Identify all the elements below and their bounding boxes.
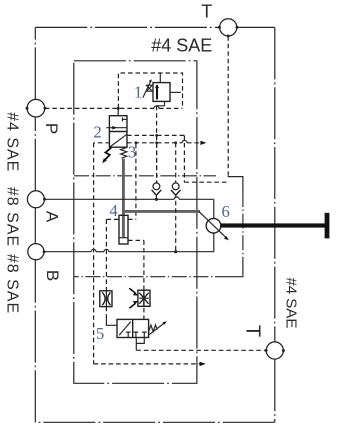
wire tank gallery vertical <box>242 192 244 261</box>
wire A-B link through needle 6 <box>213 199 215 251</box>
svg-text:4: 4 <box>110 201 118 220</box>
orifice square body <box>100 291 112 307</box>
svg-text:P: P <box>42 123 61 134</box>
svg-text:B: B <box>43 270 62 281</box>
relief valve U1 <box>143 73 183 106</box>
orifice spool 4 <box>119 215 128 244</box>
svg-text:2: 2 <box>94 123 102 142</box>
port B <box>28 244 46 260</box>
wire: P supply (dashed) with hop over drain line <box>45 107 154 109</box>
needle valve circle <box>206 218 221 233</box>
check valve 3a (left) <box>152 135 162 201</box>
solenoid valve 5 <box>117 319 167 337</box>
port T (bottom right) <box>265 342 285 359</box>
svg-text:T: T <box>242 325 264 337</box>
port A <box>27 191 46 208</box>
svg-text:#4 SAE: #4 SAE <box>282 277 299 328</box>
wire orifice 4 outlet to solenoid valve 5 <box>128 240 144 319</box>
port T (top) <box>218 19 239 38</box>
wire pilot from valve 2 right lower port <box>127 142 182 144</box>
compensator flow arrow <box>106 127 127 129</box>
plugged port square body <box>138 290 150 306</box>
lever handle bar <box>221 223 325 227</box>
wire relief drain to check valve <box>156 106 158 183</box>
wire pilot hop <box>182 140 187 142</box>
wire compensator sense branch <box>135 144 137 220</box>
compensator valve body <box>109 116 127 148</box>
node junction drain/pilot lower <box>155 141 158 144</box>
port P <box>26 99 47 117</box>
solenoid valve actuator arrow <box>149 323 165 335</box>
orifice spool seat bar <box>119 237 128 239</box>
relief valve body <box>153 83 170 102</box>
wire valve 5 outlet down <box>135 338 137 351</box>
wire B line east segment <box>109 251 214 253</box>
relief top pilot stub <box>159 73 161 83</box>
manifold boundary bottom edge <box>35 421 274 423</box>
compensator blocked port <box>122 117 127 121</box>
relief bottom port wire <box>157 101 165 105</box>
wire pilot arrow end <box>187 142 203 144</box>
wire pilot from valve 2 left port down <box>94 143 110 364</box>
wire P line east segment <box>159 107 183 109</box>
wire tank line from port T down <box>227 36 229 176</box>
manifold outer boundary (dash-dot rectangle) <box>35 27 274 422</box>
relief flow arrow <box>156 85 158 99</box>
relief adjustment arrow <box>143 81 151 97</box>
svg-text:#8 SAE: #8 SAE <box>3 254 20 314</box>
svg-text:3: 3 <box>128 143 136 162</box>
needle valve adjustment diagonal <box>199 211 227 238</box>
svg-text:6: 6 <box>222 202 230 221</box>
cavity centerline <box>74 175 216 177</box>
inner assembly boundary (dash-dot rectangle) <box>74 61 197 384</box>
node junction drain/pilot upper <box>155 134 158 137</box>
wire work port B line <box>44 251 91 253</box>
node P junction <box>117 107 120 110</box>
compensator throttle diagonal <box>110 134 127 147</box>
manifold boundary left edge <box>34 27 36 422</box>
wire pilot from valve 2 right upper port to tank line <box>127 135 228 182</box>
svg-text:#4 SAE: #4 SAE <box>151 36 212 56</box>
svg-text:T: T <box>201 2 212 22</box>
svg-text:1: 1 <box>134 83 142 102</box>
wire B line hop 2 <box>104 249 109 251</box>
wire tank gallery horizontal <box>74 276 230 278</box>
wire tank return to port T bottom <box>136 349 266 351</box>
manifold boundary top edge <box>35 26 274 28</box>
wire valve 5 left port elbow <box>106 318 117 325</box>
plugged port (star square) <box>129 288 150 308</box>
svg-text:#8 SAE: #8 SAE <box>3 187 20 247</box>
solenoid valve body <box>117 319 149 337</box>
compensator spring 3 <box>121 147 127 158</box>
wire work port A line <box>45 198 175 200</box>
svg-text:A: A <box>43 211 62 223</box>
compensator pilot zigzag arrow <box>104 147 112 161</box>
wire drain gallery with arrow <box>94 363 202 365</box>
wire B line hop 1 <box>91 249 96 251</box>
wire orifice plug to valve 5 left port <box>105 307 107 319</box>
manifold boundary right edge <box>274 27 276 422</box>
wire valve 5 second outlet jog <box>136 338 144 344</box>
solenoid valve flow diagonal <box>119 322 131 336</box>
needle valve 6 with lever <box>199 211 330 240</box>
wire A line east segment <box>179 198 214 200</box>
wire pilot gallery down to orifice plug <box>105 219 107 291</box>
compensator top stub <box>117 108 119 115</box>
relief spring <box>146 85 153 91</box>
relief valve 1 pilot enclosure (dashed box) <box>118 73 182 108</box>
svg-text:#4 SAE: #4 SAE <box>3 112 20 172</box>
wire main flow vertical (valve 2 to orifice 4) <box>122 159 125 238</box>
fixed orifice (left square) <box>100 291 112 307</box>
wire tank gallery elbow <box>230 261 243 277</box>
relief right port wire <box>170 91 176 93</box>
compensator valve 2 <box>102 107 127 163</box>
node junction right check pilot <box>174 141 177 144</box>
orifice spool body <box>119 215 128 244</box>
solenoid valve spring <box>149 325 158 332</box>
wire main flow horizontal to needle 6 <box>123 210 199 213</box>
wire P line hop over drain <box>154 106 159 109</box>
wire tank line corner <box>228 177 243 192</box>
wire gallery behind orifice 4 <box>106 218 135 220</box>
check valve 3b (right) <box>171 143 181 253</box>
lever handle end cap <box>325 213 330 239</box>
svg-text:5: 5 <box>96 324 104 343</box>
wire A line hop <box>174 197 179 199</box>
